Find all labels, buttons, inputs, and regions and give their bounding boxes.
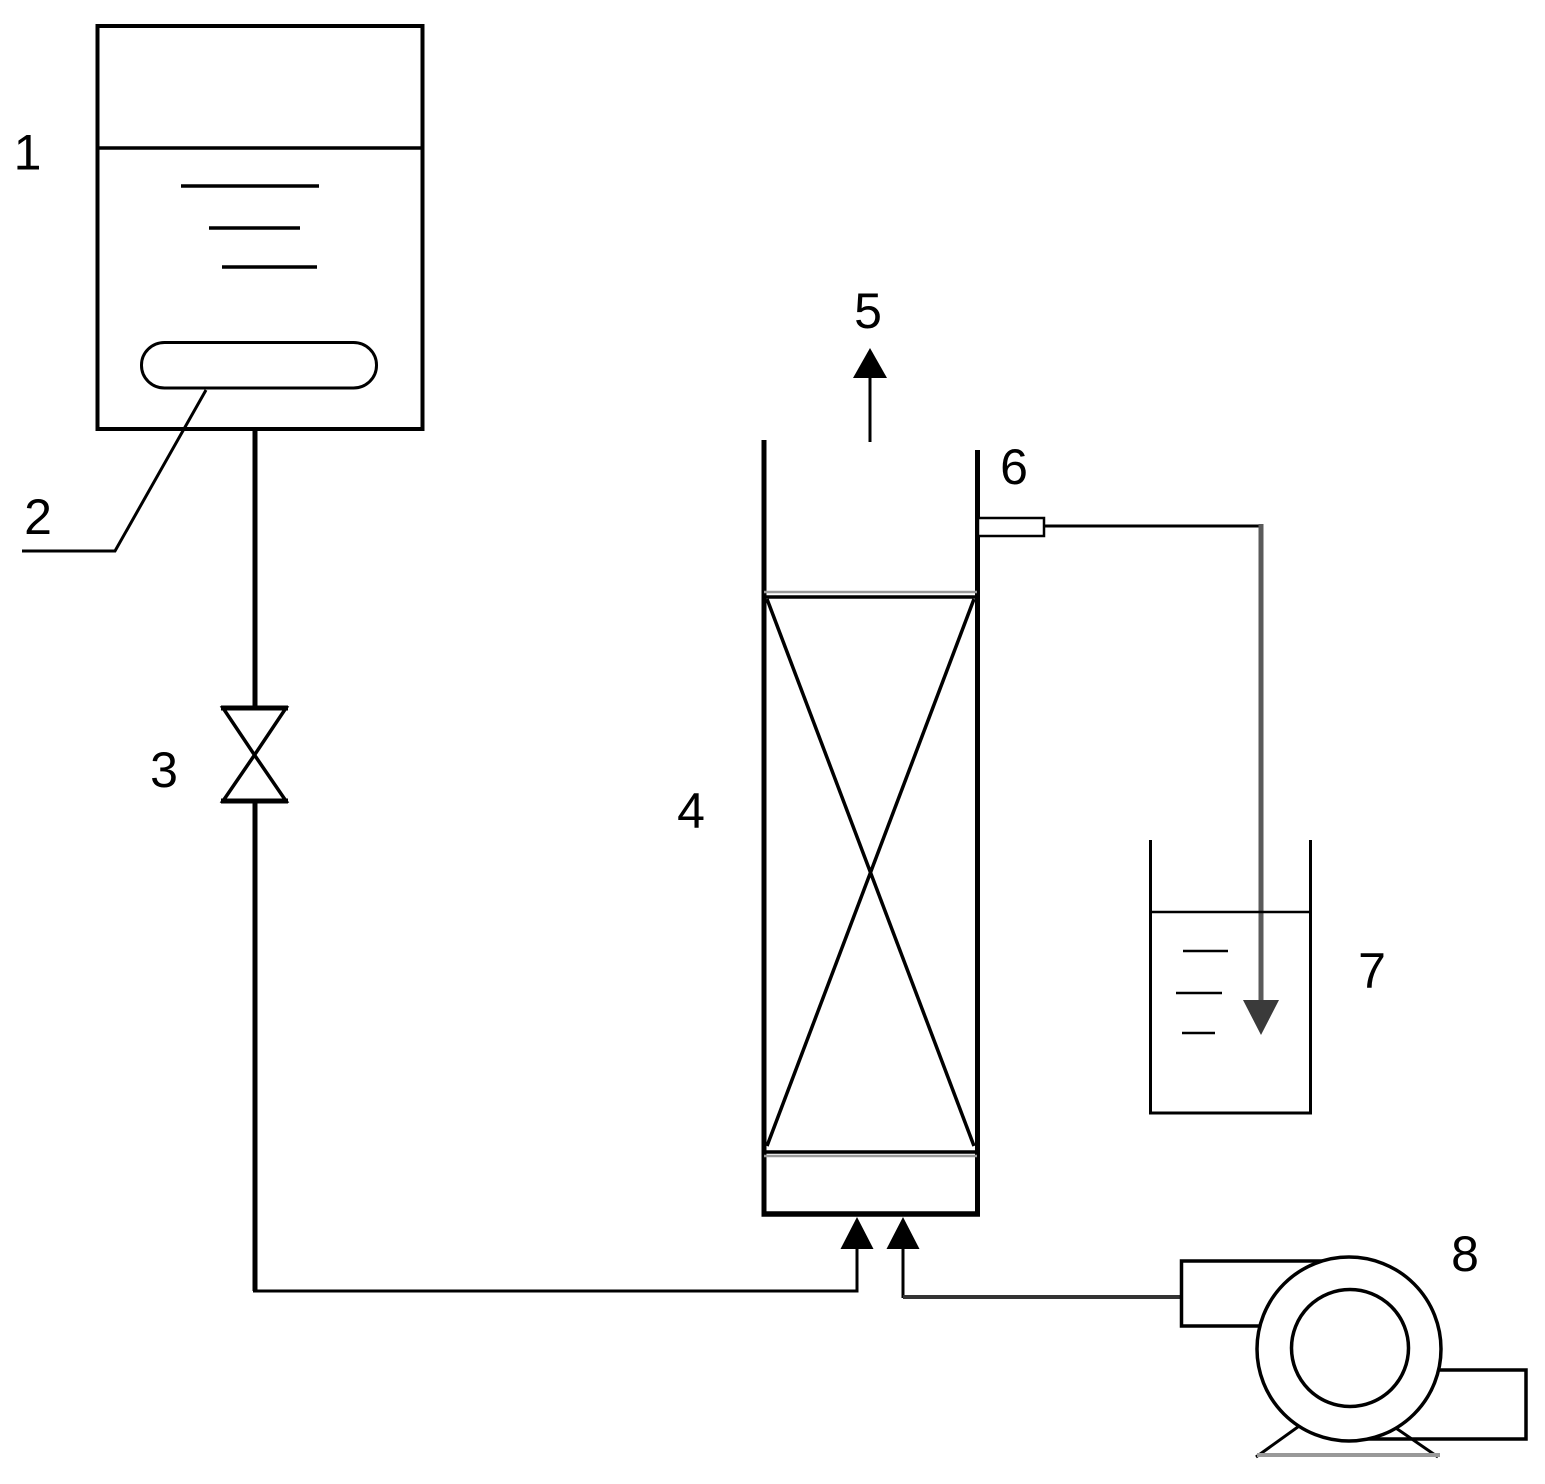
pump 8 <box>1182 1257 1527 1457</box>
pump stand base <box>1257 1453 1440 1457</box>
beaker 7: bottom <box>1149 1112 1312 1115</box>
leader line for label 2 <box>22 390 206 551</box>
beaker dash 2 <box>1176 992 1222 995</box>
column inlet arrow right <box>887 1217 920 1298</box>
tank liquid dash 2 <box>209 226 300 230</box>
tank liquid dash 3 <box>222 265 317 269</box>
svg-text:1: 1 <box>14 125 42 181</box>
wire: vertical pipe from tank to valve <box>253 429 258 710</box>
beaker 7: left wall <box>1149 840 1152 1114</box>
beaker dash 3 <box>1182 1032 1215 1035</box>
tank 1 (feed tank rectangle) <box>98 26 423 429</box>
column 4: bottom <box>762 1211 981 1217</box>
gray downcomer to beaker <box>1259 524 1264 1002</box>
beaker 7: right wall <box>1309 840 1312 1114</box>
svg-text:6: 6 <box>1000 439 1028 495</box>
packing diagonal / <box>767 599 974 1146</box>
beaker liquid level <box>1149 911 1312 914</box>
svg-text:5: 5 <box>854 283 882 339</box>
svg-text:7: 7 <box>1358 943 1386 999</box>
wire: bottom horizontal pipe to column inlet <box>253 1290 859 1293</box>
gas outlet arrow 5 <box>853 348 887 442</box>
pump stand left leg <box>1256 1424 1302 1457</box>
svg-text:4: 4 <box>677 783 705 839</box>
svg-text:8: 8 <box>1451 1226 1479 1282</box>
column 4: left wall <box>762 440 767 1216</box>
pump stand right leg <box>1390 1424 1438 1457</box>
column 4: right wall <box>975 450 980 1216</box>
tank liquid dash 1 <box>181 184 319 188</box>
svg-text:3: 3 <box>150 742 178 798</box>
wire: vertical pipe from valve down <box>253 801 258 1291</box>
tank liquid level line <box>98 146 423 150</box>
svg-text:2: 2 <box>24 489 52 545</box>
wire: port 6 to downcomer <box>1044 525 1263 528</box>
valve 3 (bowtie) <box>221 708 288 801</box>
downcomer arrowhead <box>1243 1000 1279 1035</box>
wire: pump to column inlet <box>903 1295 1182 1299</box>
pump inner circle <box>1292 1290 1409 1407</box>
stir bar 2 (capsule inside tank) <box>142 343 377 389</box>
packing top line <box>764 591 977 594</box>
pump outlet box <box>1355 1370 1526 1439</box>
packing diagonal \ <box>767 599 974 1146</box>
packing bottom line <box>764 1150 977 1154</box>
pump inlet box <box>1182 1261 1345 1326</box>
sample port 6 <box>978 518 1044 536</box>
pump outer circle <box>1257 1257 1441 1441</box>
column inlet arrow left <box>841 1217 874 1291</box>
beaker dash 1 <box>1183 950 1228 953</box>
